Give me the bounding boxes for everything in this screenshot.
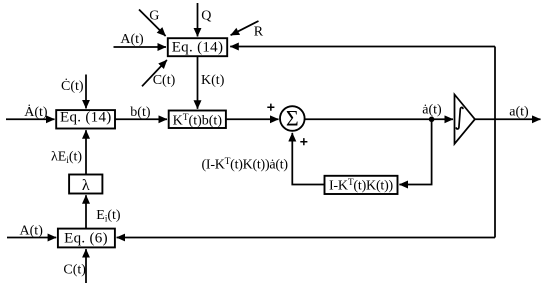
op-amp U4 integrator triangle	[455, 95, 475, 144]
svg-text:A(t): A(t)	[20, 224, 44, 239]
box U7 Eq. (6)	[58, 229, 115, 248]
wire lambda box output up into left Eq.(14)	[85, 130, 87, 174]
svg-text:C(t): C(t)	[63, 263, 86, 278]
wire integrator output a(t)	[475, 118, 541, 120]
wire summer output to integrator	[305, 118, 453, 120]
svg-text:a(t): a(t)	[509, 104, 529, 119]
svg-text:Eq. (14): Eq. (14)	[172, 39, 224, 55]
wire K(t) from top Eq.(14) to KTb box	[197, 56, 199, 109]
svg-text:Eq. (6): Eq. (6)	[64, 230, 108, 246]
svg-text:KT(t)b(t): KT(t)b(t)	[173, 113, 223, 129]
box U3 KT(t)b(t)	[169, 111, 226, 129]
wire Ei(t) from Eq.(6) up into lambda box	[85, 195, 87, 228]
wire right vertical feedback line	[494, 47, 496, 238]
node plus sign left of summer	[267, 104, 274, 111]
node plus sign below summer	[300, 138, 307, 145]
box U1 Eq. (14) top	[168, 38, 227, 56]
svg-text:λ: λ	[82, 177, 90, 194]
wire b(t) from left Eq.(14) to KTb box	[115, 118, 167, 120]
svg-text:ȧ(t): ȧ(t)	[422, 102, 442, 117]
svg-text:Q: Q	[201, 8, 211, 23]
wire feedback from I-KTK box up into summer	[292, 133, 324, 185]
box U5 I-KT(t)K(t))	[325, 176, 398, 194]
wire G input arrow into top Eq.(14)	[139, 10, 166, 37]
box U6 lambda	[69, 175, 102, 194]
svg-text:Ċ(t): Ċ(t)	[61, 77, 84, 94]
wire A(t) input arrow into top Eq.(14)	[114, 46, 167, 48]
wire feedback tap down from junction to I-KTK box	[399, 119, 431, 184]
svg-text:I-KT(t)K(t)): I-KT(t)K(t))	[329, 178, 394, 194]
svg-text:Eq. (14): Eq. (14)	[60, 110, 112, 126]
op-amp S1 summing junction	[280, 106, 305, 131]
svg-text:Ȧ(t): Ȧ(t)	[24, 104, 48, 120]
wire Adot(t) input arrow into left Eq.(14)	[6, 118, 55, 120]
wire C(t) diagonal input arrow into top Eq.(14)	[142, 60, 167, 86]
svg-text:G: G	[149, 9, 159, 24]
wire Q input arrow into top Eq.(14)	[197, 3, 199, 37]
svg-text:λEi(t): λEi(t)	[51, 149, 82, 165]
svg-text:b(t): b(t)	[130, 105, 151, 120]
svg-text:A(t): A(t)	[120, 32, 144, 47]
wire A(t) input arrow into Eq.(6)	[7, 237, 56, 239]
svg-text:Σ: Σ	[286, 106, 299, 131]
svg-text:(I-KT(t)K(t))ȧ(t): (I-KT(t)K(t))ȧ(t)	[202, 157, 289, 173]
wire feedback from right vertical into top Eq.(14)	[230, 46, 495, 48]
wire C(t) input arrow up into Eq.(6)	[85, 249, 87, 283]
svg-text:C(t): C(t)	[153, 73, 176, 88]
svg-text:K(t): K(t)	[201, 73, 225, 88]
wire R input arrow into top Eq.(14)	[231, 21, 259, 35]
svg-text:R: R	[254, 24, 264, 39]
wire KTb output to summer	[226, 118, 279, 120]
svg-text:Ei(t): Ei(t)	[96, 208, 121, 224]
node junction dot adot(t)	[429, 117, 435, 123]
wire Cdot(t) input arrow into left Eq.(14)	[85, 75, 87, 109]
wire feedback from right vertical into Eq.(6)	[117, 237, 495, 239]
box U2 Eq. (14) left	[56, 110, 115, 128]
